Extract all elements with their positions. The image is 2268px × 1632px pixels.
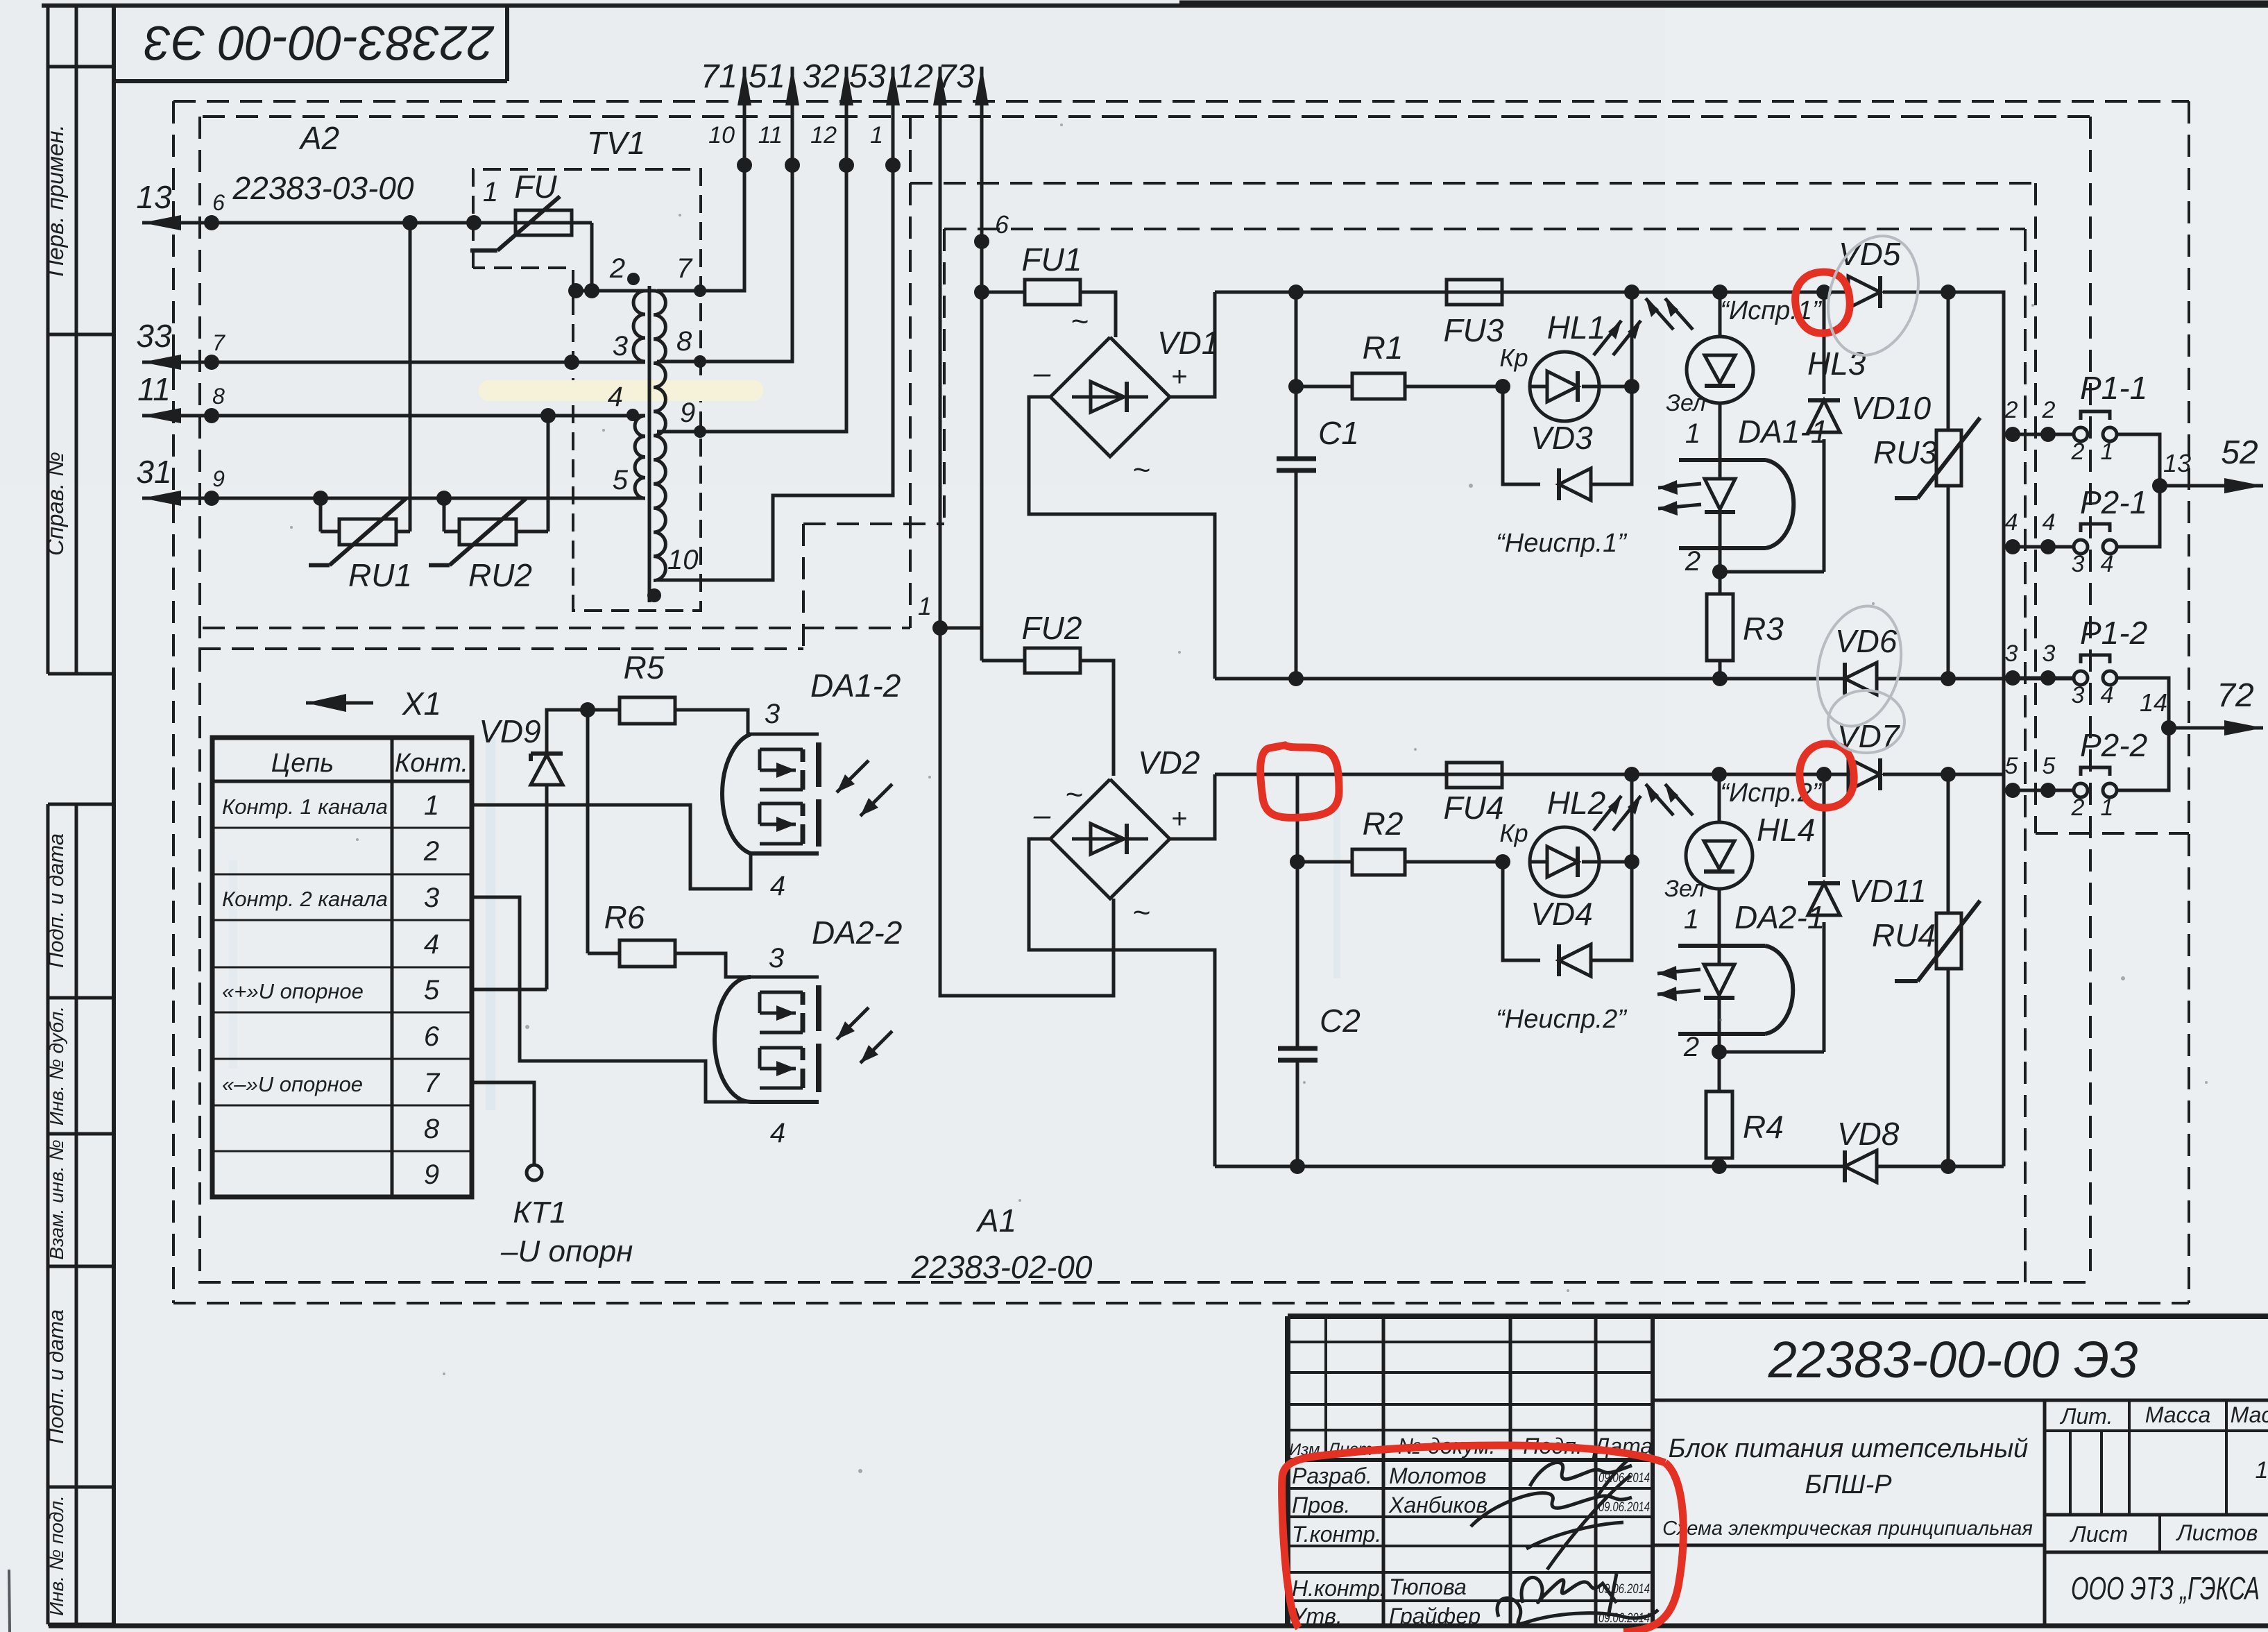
svg-text:R3: R3	[1743, 611, 1784, 647]
svg-text:3: 3	[424, 883, 439, 913]
svg-text:VD11: VD11	[1849, 873, 1927, 909]
DA1-1 receive arrows	[1658, 484, 1701, 488]
svg-text:2: 2	[1683, 1032, 1699, 1062]
capacitor C2	[1296, 774, 1299, 1048]
DA1-2 light arrows	[837, 760, 869, 792]
svg-text:2: 2	[1685, 546, 1700, 577]
svg-text:R5: R5	[624, 649, 665, 686]
svg-text:~: ~	[1132, 896, 1150, 930]
resistor R2	[1352, 849, 1405, 875]
svg-text:“Неиспр.2”: “Неиспр.2”	[1496, 1005, 1628, 1034]
svg-text:–U опорн: –U опорн	[500, 1234, 633, 1268]
svg-text:Схема электрическая принципиал: Схема электрическая принципиальная	[1662, 1518, 2033, 1540]
svg-text:Цепь: Цепь	[271, 749, 334, 778]
wire contacts vertical lower	[2002, 774, 2006, 1166]
svg-text:4: 4	[424, 929, 439, 960]
svg-text:Зел: Зел	[1664, 876, 1705, 902]
svg-text:VD10: VD10	[1851, 390, 1931, 426]
svg-text:Контр. 2 канала: Контр. 2 канала	[222, 887, 388, 911]
frame left inner border	[112, 6, 116, 1626]
pin dots 10 11 12 1	[737, 158, 752, 173]
relay contact P1-1	[2074, 427, 2088, 441]
svg-text:X1: X1	[402, 686, 441, 722]
svg-text:Мас: Мас	[2231, 1402, 2268, 1427]
arrow 32	[845, 67, 849, 165]
svg-text:12: 12	[896, 58, 933, 95]
output node 13 / arrow 52	[2117, 434, 2160, 547]
optocoupler DA1-2	[722, 734, 751, 853]
signature 3	[1521, 1574, 1617, 1617]
svg-text:Тюпова: Тюпова	[1389, 1574, 1467, 1599]
svg-text:R2: R2	[1363, 806, 1404, 842]
svg-text:3: 3	[765, 699, 780, 729]
svg-text:DA2-2: DA2-2	[812, 915, 902, 951]
dashed A2 unit box bottom/right	[203, 627, 910, 629]
svg-text:1: 1	[2101, 794, 2114, 821]
HL2 light arrows	[1594, 796, 1621, 831]
svg-text:~: ~	[1071, 305, 1089, 339]
svg-text:1: 1	[424, 790, 439, 821]
svg-text:9: 9	[680, 398, 695, 428]
resistor R4	[1706, 1091, 1732, 1158]
svg-text:6: 6	[995, 210, 1009, 239]
left margin strip verticals	[46, 6, 50, 674]
optocoupler DA1-1	[1719, 403, 1722, 460]
svg-text:53: 53	[849, 58, 887, 95]
svg-text:2: 2	[2004, 397, 2018, 423]
svg-text:9: 9	[424, 1159, 439, 1190]
svg-text:8: 8	[212, 384, 225, 409]
svg-text:7: 7	[676, 253, 693, 284]
HL1 light arrows	[1594, 321, 1621, 355]
signature 4	[1497, 1598, 1658, 1624]
svg-text:Зел: Зел	[1666, 390, 1706, 416]
signature 1	[1530, 1457, 1632, 1499]
svg-text:FU3: FU3	[1444, 312, 1504, 348]
svg-text:“Испр.1”: “Испр.1”	[1720, 296, 1823, 325]
svg-text:4: 4	[770, 871, 785, 901]
svg-text:P2-1: P2-1	[2080, 484, 2147, 520]
wire node1 to FU2 line	[940, 627, 982, 630]
svg-text:Лит.: Лит.	[2060, 1404, 2113, 1429]
arrow 33 / wire y522	[142, 361, 645, 364]
svg-text:VD3: VD3	[1531, 420, 1593, 456]
diode VD7	[1848, 758, 1880, 790]
svg-text:31: 31	[136, 454, 171, 490]
wire VD2 plus output	[1170, 774, 1215, 839]
svg-text:VD9: VD9	[479, 713, 540, 749]
varistor RU3	[1947, 292, 1950, 430]
scan specks	[290, 526, 293, 529]
varistor RU4	[1947, 774, 1950, 913]
wire VD9 node to R6	[586, 710, 590, 953]
svg-text:Блок питания штепсельный: Блок питания штепсельный	[1669, 1434, 2029, 1463]
TV1 primary winding 2-3	[633, 291, 645, 362]
resistor R6	[588, 952, 620, 955]
relay contact P1-2	[2074, 671, 2088, 685]
svg-text:Справ. №: Справ. №	[42, 452, 68, 556]
diode VD3 loop	[1503, 386, 1540, 484]
arrow 51	[791, 67, 794, 165]
title block grid	[1288, 1314, 2268, 1319]
svg-text:1: 1	[2256, 1457, 2268, 1484]
svg-text:73: 73	[938, 58, 975, 95]
sheet bottom border	[49, 1624, 2268, 1629]
svg-text:Перв. примен.: Перв. примен.	[42, 124, 68, 276]
svg-text:1: 1	[483, 177, 498, 207]
svg-text:Инв. № дубл.: Инв. № дубл.	[46, 1006, 67, 1125]
svg-text:1: 1	[1685, 418, 1700, 449]
svg-text:2: 2	[423, 836, 439, 867]
TV1 secondary winding	[654, 291, 665, 581]
svg-text:1: 1	[918, 592, 932, 620]
wire DA1-1 pin2 node	[1719, 548, 1722, 594]
fuse FU	[515, 210, 572, 235]
wire FU right down to pin2	[590, 223, 594, 291]
svg-text:4: 4	[2043, 509, 2056, 536]
svg-text:7: 7	[424, 1068, 441, 1098]
TV1 secondary polarity dot	[647, 588, 661, 602]
diode VD10	[1823, 439, 1826, 572]
svg-text:3: 3	[769, 943, 784, 974]
svg-text:ООО ЭТЗ „ГЭКСА: ООО ЭТЗ „ГЭКСА	[2071, 1570, 2260, 1606]
fuse FU4	[1447, 763, 1502, 788]
diode VD11	[1823, 922, 1826, 1052]
signature 2	[1471, 1475, 1632, 1570]
contact row wires P1-2	[2004, 677, 2074, 680]
wire FU2 to bridge VD2 top	[1080, 661, 1114, 776]
lower plus rail	[1215, 773, 1849, 776]
svg-text:2: 2	[2071, 439, 2085, 465]
svg-text:4: 4	[2101, 682, 2114, 708]
svg-text:C1: C1	[1318, 415, 1359, 451]
relay contact P2-1	[2074, 540, 2088, 554]
varistor RU2	[459, 519, 516, 545]
svg-text:Кр: Кр	[1499, 343, 1528, 372]
red circle VD10 junction	[1796, 272, 1850, 333]
svg-text:Конт.: Конт.	[395, 749, 468, 778]
svg-text:FU1: FU1	[1022, 241, 1082, 278]
paper edge bottom-left	[9, 1570, 10, 1632]
svg-text:Ханбиков: Ханбиков	[1388, 1493, 1487, 1518]
svg-text:6: 6	[212, 190, 225, 215]
DA2-2 light arrows	[837, 1008, 869, 1039]
svg-text:14: 14	[2140, 688, 2167, 717]
contact row wires P1-1	[2004, 433, 2074, 436]
svg-text:Разраб.: Разраб.	[1292, 1463, 1372, 1488]
wire 53 to tap10	[657, 165, 893, 580]
svg-text:DA1-2: DA1-2	[810, 668, 901, 704]
svg-text:8: 8	[676, 326, 692, 357]
wire RU2 leads	[444, 530, 459, 534]
svg-text:Кр: Кр	[1499, 819, 1528, 847]
wire 71 to tap7	[657, 165, 744, 291]
svg-text:52: 52	[2221, 434, 2258, 471]
svg-text:VD6: VD6	[1835, 623, 1898, 659]
svg-text:3: 3	[2043, 640, 2056, 667]
svg-text:3: 3	[2005, 640, 2018, 667]
svg-text:“Неиспр.1”: “Неиспр.1”	[1496, 529, 1628, 558]
wire R6 to DA2-2 pin3	[675, 953, 819, 977]
HL3 light arrows	[1646, 298, 1673, 330]
sheet top border	[42, 3, 2268, 8]
svg-text:HL4: HL4	[1757, 812, 1815, 848]
svg-text:RU2: RU2	[468, 557, 532, 593]
svg-text:VD4: VD4	[1531, 896, 1592, 932]
arrow 13 / wire y321	[142, 221, 592, 225]
TV1 primary winding 4-5	[635, 416, 645, 498]
node R5/VD9	[580, 702, 595, 717]
fuse FU1	[982, 291, 1025, 294]
svg-text:FU4: FU4	[1444, 790, 1504, 826]
svg-text:Инв. № подл.: Инв. № подл.	[46, 1495, 67, 1616]
svg-text:TV1: TV1	[587, 125, 645, 161]
svg-text:13: 13	[136, 179, 172, 215]
fuse FU2	[982, 659, 1025, 663]
svg-text:Молотов: Молотов	[1389, 1463, 1486, 1488]
LED HL1	[1530, 352, 1599, 421]
svg-text:«+»U опорное: «+»U опорное	[222, 979, 364, 1003]
svg-text:09.06.2014: 09.06.2014	[1598, 1500, 1650, 1515]
correction fluid streak	[479, 380, 763, 401]
svg-text:5: 5	[2005, 753, 2018, 779]
svg-text:72: 72	[2217, 677, 2253, 714]
svg-text:Т.контр.: Т.контр.	[1292, 1522, 1381, 1547]
transformer TV1 core	[648, 286, 651, 602]
LED HL2	[1530, 827, 1599, 896]
svg-text:Взам. инв. №: Взам. инв. №	[46, 1139, 67, 1259]
wire R5 to DA1-2 pin3	[675, 710, 819, 734]
svg-text:11: 11	[758, 122, 783, 148]
pencil oval VD5	[1814, 224, 1933, 367]
svg-text:~: ~	[1132, 453, 1150, 487]
wire X1 pin1 to DA1-2 pin4	[472, 805, 751, 889]
svg-text:4: 4	[608, 382, 623, 412]
wire 32 to tap9	[657, 165, 846, 432]
svg-text:VD2: VD2	[1138, 745, 1200, 781]
wire node6 vertical / FU1 branch	[974, 284, 989, 300]
svg-text:22383-00-00 Э3: 22383-00-00 Э3	[144, 16, 495, 70]
wire RU1 leads	[321, 530, 339, 534]
DA2-2 phototransistor elements	[760, 991, 803, 994]
svg-text:5: 5	[424, 975, 440, 1005]
wire HL1 right to vertical	[1599, 385, 1632, 389]
svg-text:Подп. и дата: Подп. и дата	[44, 1309, 68, 1444]
wire FU1 to bridge	[1080, 292, 1116, 337]
arrow 31 / wire y718	[142, 497, 645, 500]
svg-text:2: 2	[609, 253, 625, 284]
dashed FU/TV1 sub-box	[473, 169, 701, 611]
svg-text:8: 8	[424, 1114, 440, 1144]
red loop around signatures	[1282, 1445, 1684, 1632]
svg-text:33: 33	[136, 318, 172, 354]
svg-text:«–»U опорное: «–»U опорное	[222, 1072, 363, 1096]
svg-text:1: 1	[2101, 439, 2114, 465]
arrow 12	[939, 67, 942, 628]
svg-text:13: 13	[2163, 449, 2191, 477]
contact row wires P2-2	[2004, 789, 2074, 792]
diode VD5	[1848, 276, 1880, 308]
lamp HL4	[1712, 767, 1727, 782]
resistor R3	[1707, 594, 1733, 661]
svg-text:11: 11	[137, 371, 171, 407]
svg-text:+: +	[1171, 804, 1187, 834]
resistor R5	[588, 708, 620, 712]
dashed outer device boundary DB1	[173, 100, 2189, 103]
wire VD1 minus output	[1029, 397, 1215, 679]
wire VD2 ac2 from node1	[940, 628, 1114, 996]
bridge rectifier VD2	[1050, 779, 1170, 899]
svg-text:22383-00-00 Э3: 22383-00-00 Э3	[1768, 1331, 2138, 1388]
svg-text:C2: C2	[1320, 1003, 1361, 1039]
pencil oval VD6	[1805, 597, 1913, 736]
svg-text:RU1: RU1	[348, 557, 412, 593]
upper bottom rail	[1215, 677, 1845, 681]
DA2-1 receive arrows	[1657, 969, 1700, 974]
red blob C2 junction	[1261, 745, 1339, 817]
svg-text:6: 6	[424, 1021, 440, 1052]
arrow 53	[892, 67, 895, 165]
svg-text:P1-2: P1-2	[2080, 615, 2147, 651]
wire pin2 junction	[576, 289, 656, 293]
svg-text:4: 4	[2005, 509, 2018, 536]
pencil oval VD7	[1828, 690, 1904, 753]
X1 arrow	[306, 702, 373, 705]
optocoupler DA2-2	[715, 977, 751, 1102]
zener VD9	[545, 785, 549, 989]
svg-text:Грайфер: Грайфер	[1389, 1604, 1481, 1629]
dashed A1 top step lines	[198, 647, 803, 650]
svg-text:R1: R1	[1363, 330, 1404, 366]
svg-text:3: 3	[2072, 551, 2085, 577]
lower bottom rail	[1215, 1165, 1845, 1168]
diode VD4 loop	[1503, 862, 1540, 960]
DA1-2 phototransistor elements	[760, 748, 803, 751]
wire DA2-1 pin2 node	[1718, 1034, 1721, 1091]
svg-text:RU4: RU4	[1872, 917, 1936, 953]
svg-text:1: 1	[870, 122, 883, 148]
svg-text:R4: R4	[1743, 1109, 1784, 1145]
svg-text:VD8: VD8	[1837, 1116, 1900, 1152]
svg-text:~: ~	[1065, 778, 1083, 812]
svg-text:3: 3	[613, 331, 628, 362]
svg-text:Подп. и дата: Подп. и дата	[44, 833, 68, 968]
svg-text:–: –	[1033, 798, 1051, 832]
diode VD6	[1845, 663, 1877, 695]
svg-text:КТ1: КТ1	[513, 1196, 566, 1230]
svg-text:Пров.: Пров.	[1292, 1493, 1350, 1518]
output node 14 / arrow 72	[2117, 678, 2169, 790]
svg-text:–: –	[1033, 356, 1051, 390]
svg-text:Контр. 1 канала: Контр. 1 канала	[222, 794, 388, 819]
svg-text:32: 32	[803, 58, 839, 95]
svg-text:P2-2: P2-2	[2080, 727, 2147, 763]
svg-text:10: 10	[708, 122, 735, 148]
dashed inner boundary DB2 / A1 outline	[203, 115, 2090, 118]
svg-text:22383-02-00: 22383-02-00	[911, 1249, 1093, 1285]
svg-text:A1: A1	[975, 1202, 1016, 1239]
lamp HL3	[1712, 284, 1728, 300]
wire VD1 plus output	[1170, 292, 1215, 397]
wire X1 pin5 to VD9	[472, 988, 547, 992]
svg-text:22383-03-00: 22383-03-00	[232, 170, 414, 206]
svg-text:7: 7	[212, 330, 225, 355]
svg-text:FU: FU	[514, 169, 557, 205]
svg-text:4: 4	[770, 1118, 785, 1148]
svg-text:2: 2	[2071, 794, 2085, 821]
svg-text:+: +	[1171, 362, 1187, 392]
wire 51 to tap8	[657, 165, 792, 362]
red circle VD11 junction	[1800, 744, 1854, 808]
svg-text:FU2: FU2	[1022, 610, 1082, 646]
HL4 light arrows	[1646, 784, 1673, 815]
svg-text:Листов: Листов	[2176, 1520, 2258, 1545]
resistor R1	[1352, 373, 1405, 399]
upper plus rail	[1215, 291, 1849, 294]
svg-text:10: 10	[667, 545, 699, 575]
diode VD8	[1845, 1150, 1877, 1182]
svg-text:HL1: HL1	[1547, 309, 1605, 346]
wire VD5 node to contacts	[1948, 292, 2004, 774]
scanner streaks	[486, 736, 495, 1110]
wire HL2 right to vertical	[1599, 860, 1632, 864]
fuse FU3	[1447, 280, 1502, 305]
svg-text:VD1: VD1	[1157, 325, 1219, 361]
bridge rectifier VD1	[1050, 337, 1170, 457]
arrow 11 / wire y599	[142, 414, 645, 418]
svg-text:Лист: Лист	[2070, 1522, 2128, 1547]
svg-text:A2: A2	[298, 120, 339, 156]
svg-text:12: 12	[810, 122, 837, 148]
X1 table	[212, 738, 472, 1197]
svg-text:R6: R6	[604, 899, 645, 935]
arrow 71	[743, 67, 747, 165]
wire X1 pin3 to DA2-2 pin4	[472, 897, 751, 1102]
svg-text:2: 2	[2042, 397, 2056, 423]
contact row wires P2-1	[2004, 545, 2074, 549]
svg-text:5: 5	[613, 465, 629, 495]
top stamp box	[114, 79, 507, 83]
arrow 73	[980, 67, 984, 241]
left strip box lines	[48, 65, 114, 69]
svg-text:4: 4	[2101, 551, 2114, 577]
relay contact P2-2	[2074, 783, 2088, 797]
svg-text:51: 51	[749, 58, 785, 95]
svg-text:Н.контр.: Н.контр.	[1292, 1576, 1386, 1601]
svg-text:HL2: HL2	[1547, 785, 1605, 821]
svg-text:Масса: Масса	[2145, 1402, 2211, 1427]
varistor RU1	[339, 519, 396, 545]
svg-text:RU3: RU3	[1873, 434, 1937, 470]
optocoupler DA2-1	[1718, 889, 1721, 946]
svg-text:1: 1	[1684, 904, 1699, 935]
svg-text:9: 9	[212, 466, 225, 491]
svg-text:БПШ-Р: БПШ-Р	[1805, 1470, 1892, 1499]
wire VD2 minus output	[1029, 839, 1215, 1166]
svg-text:P1-1: P1-1	[2080, 370, 2147, 406]
terminal KT1	[472, 1082, 534, 1165]
svg-text:71: 71	[701, 58, 737, 95]
svg-text:3: 3	[2072, 682, 2085, 708]
svg-text:HL3: HL3	[1807, 346, 1866, 382]
svg-text:5: 5	[2043, 753, 2056, 779]
capacitor C1	[1288, 284, 1304, 300]
